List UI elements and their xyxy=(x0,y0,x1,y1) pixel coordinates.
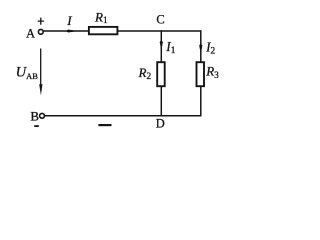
svg-text:A: A xyxy=(26,27,35,41)
svg-text:I: I xyxy=(66,13,72,28)
resistor R2 xyxy=(157,62,165,86)
caption bar xyxy=(98,124,111,126)
current arrow I xyxy=(66,30,78,33)
wire right branch: corner C-level down to bottom xyxy=(200,30,202,116)
svg-text:I2: I2 xyxy=(205,39,215,56)
resistor R1 xyxy=(89,27,118,34)
svg-text:B: B xyxy=(30,109,39,124)
svg-text:C: C xyxy=(156,13,164,27)
current arrow I2 xyxy=(199,43,202,54)
svg-text:D: D xyxy=(156,117,165,131)
resistor R3 xyxy=(197,62,205,86)
svg-text:R1: R1 xyxy=(94,9,108,26)
svg-text:I1: I1 xyxy=(165,39,175,56)
minus sign xyxy=(34,125,39,127)
voltage arrow UAB xyxy=(40,49,42,87)
wire top: A to node C corner xyxy=(43,30,201,32)
svg-text:R2: R2 xyxy=(138,65,152,82)
current arrow I1 xyxy=(160,40,163,51)
plus sign xyxy=(38,18,44,25)
svg-text:R3: R3 xyxy=(205,63,219,81)
wire bottom: B to right corner xyxy=(45,115,202,117)
terminal B xyxy=(40,113,45,118)
wire middle branch: C down to D xyxy=(160,30,162,116)
terminal A xyxy=(38,29,43,34)
svg-text:UAB: UAB xyxy=(16,64,39,81)
